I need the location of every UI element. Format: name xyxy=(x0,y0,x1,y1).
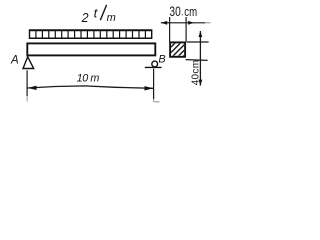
cross-section square xyxy=(170,42,185,56)
dimension 30 cm : right outward arrowhead xyxy=(188,21,194,25)
beam xyxy=(27,43,155,55)
support B roller circle xyxy=(152,61,158,67)
dimension 10 m : left extension line xyxy=(26,70,28,96)
svg-text:2: 2 xyxy=(81,11,89,25)
dimension 30 cm : left outward arrowhead xyxy=(161,21,167,25)
dimension 40 cm : bottom outward arrowhead xyxy=(199,80,203,86)
svg-text:A: A xyxy=(10,55,19,67)
dimension 10 m : dimension line xyxy=(28,86,154,88)
dimension 40 cm : bottom extension line xyxy=(186,59,208,62)
svg-text:t: t xyxy=(94,6,99,21)
svg-text:10 m: 10 m xyxy=(77,73,100,85)
cross-section hatching xyxy=(168,40,189,59)
dimension 10 m : left arrowhead xyxy=(28,86,37,90)
support B ground line xyxy=(145,66,162,68)
svg-text:40cm: 40cm xyxy=(191,60,202,86)
svg-text:30: 30 xyxy=(169,4,180,19)
svg-text:m: m xyxy=(107,12,116,24)
distributed load band xyxy=(29,30,152,39)
dimension 40 cm : top extension line xyxy=(187,41,209,43)
support A pin triangle xyxy=(23,57,34,69)
svg-text:cm: cm xyxy=(184,4,197,19)
svg-text:B: B xyxy=(158,53,165,65)
dimension 30 cm : right extension line xyxy=(185,17,187,42)
load label 2 t/m xyxy=(81,5,116,25)
dimension 10 m : right extension line xyxy=(153,69,155,99)
dimension 30 cm : left extension line xyxy=(169,17,171,42)
dimension 10 m : stray foot mark xyxy=(154,101,159,103)
dimension 10 m : right arrowhead xyxy=(145,86,154,90)
dimension 40 cm : dimension line xyxy=(199,31,201,86)
load band tick marks xyxy=(36,31,145,39)
dimension 30 cm : dimension line xyxy=(161,22,205,24)
dimension 40 cm : top outward arrowhead xyxy=(199,31,203,37)
